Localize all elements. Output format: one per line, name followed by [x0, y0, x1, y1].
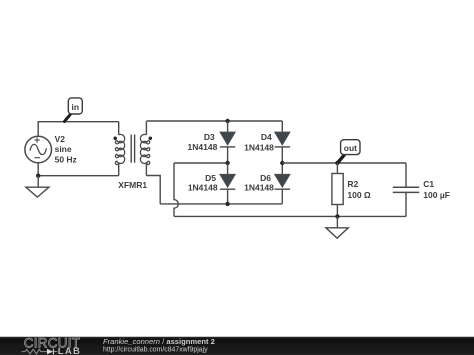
wire mid-left rail	[174, 162, 228, 164]
label out	[344, 143, 357, 153]
credit line 2 url	[103, 346, 208, 353]
svg-text:http://circuitlab.com/c847xwf9: http://circuitlab.com/c847xwf9pjajy	[103, 346, 208, 353]
label D3 1N4148	[188, 132, 218, 152]
wire source bottom to transformer primary bottom	[38, 163, 119, 176]
svg-text:LAB: LAB	[58, 346, 81, 355]
label C1 100 uF	[423, 179, 450, 200]
credit line 1	[103, 337, 215, 346]
wire bottom diode rail	[160, 203, 282, 205]
diode D6	[275, 163, 290, 204]
ground GND1 under V2	[26, 176, 49, 197]
svg-text:sine: sine	[55, 144, 72, 154]
primary winding	[115, 122, 124, 176]
label D4 1N4148	[244, 132, 274, 152]
ground GND2 under R2	[326, 216, 348, 238]
node top rail D3	[225, 119, 229, 123]
label D6 1N4148	[244, 173, 274, 193]
phase dot primary	[113, 137, 117, 141]
svg-text:D4: D4	[261, 132, 272, 142]
svg-text:XFMR1: XFMR1	[118, 180, 147, 190]
logo diode arrow	[47, 349, 57, 355]
svg-text:D5: D5	[205, 173, 216, 183]
svg-text:100 µF: 100 µF	[423, 190, 450, 200]
label XFMR1	[118, 180, 147, 190]
svg-text:Frankie_connern / assignment 2: Frankie_connern / assignment 2	[103, 337, 215, 346]
label in	[72, 102, 80, 112]
svg-text:100 Ω: 100 Ω	[347, 190, 371, 200]
svg-text:1N4148: 1N4148	[244, 183, 274, 193]
label V2 sine 50 Hz	[55, 134, 77, 164]
label D5 1N4148	[188, 173, 218, 193]
wire mid-right rail to out	[282, 162, 406, 164]
capacitor C1	[393, 163, 419, 216]
svg-text:V2: V2	[55, 134, 66, 144]
svg-text:50 Hz: 50 Hz	[55, 154, 77, 164]
wire nodeX vertical with hop	[174, 163, 178, 216]
wire source top to transformer primary top	[38, 122, 119, 137]
svg-text:C1: C1	[423, 179, 434, 189]
logo CIRCUIT text	[24, 335, 80, 350]
footer bar	[0, 336, 474, 355]
svg-text:R2: R2	[347, 179, 358, 189]
voltage source V2	[25, 136, 52, 163]
svg-text:1N4148: 1N4148	[188, 183, 218, 193]
logo LAB text	[58, 346, 81, 355]
svg-text:in: in	[72, 102, 80, 112]
svg-text:D3: D3	[204, 132, 215, 142]
wire bottom out rail	[174, 215, 406, 217]
phase dot secondary	[149, 137, 153, 141]
wire secondary top rail	[146, 120, 282, 122]
svg-text:1N4148: 1N4148	[244, 143, 274, 153]
node D5 bottom junction	[225, 202, 229, 206]
diode D5	[220, 163, 235, 204]
node D3 D5 junction	[225, 161, 229, 165]
wire secondary bottom routing	[146, 176, 160, 204]
diode D4	[275, 121, 290, 163]
diode D3	[220, 121, 235, 163]
svg-text:D6: D6	[260, 173, 271, 183]
resistor R2	[332, 163, 343, 216]
node D4 D6 junction	[280, 161, 284, 165]
transformer XFMR1	[113, 121, 152, 175]
node source bottom junction	[36, 174, 40, 178]
flag out	[338, 140, 361, 163]
node R2 top junction	[335, 161, 339, 165]
label R2 100 Ohm	[347, 179, 371, 200]
logo resistor zigzag	[22, 349, 48, 354]
svg-text:out: out	[344, 143, 357, 153]
core	[131, 135, 134, 163]
svg-text:1N4148: 1N4148	[188, 142, 218, 152]
flag in	[64, 98, 82, 122]
node R2 bottom junction	[335, 214, 339, 218]
secondary winding	[140, 121, 149, 175]
